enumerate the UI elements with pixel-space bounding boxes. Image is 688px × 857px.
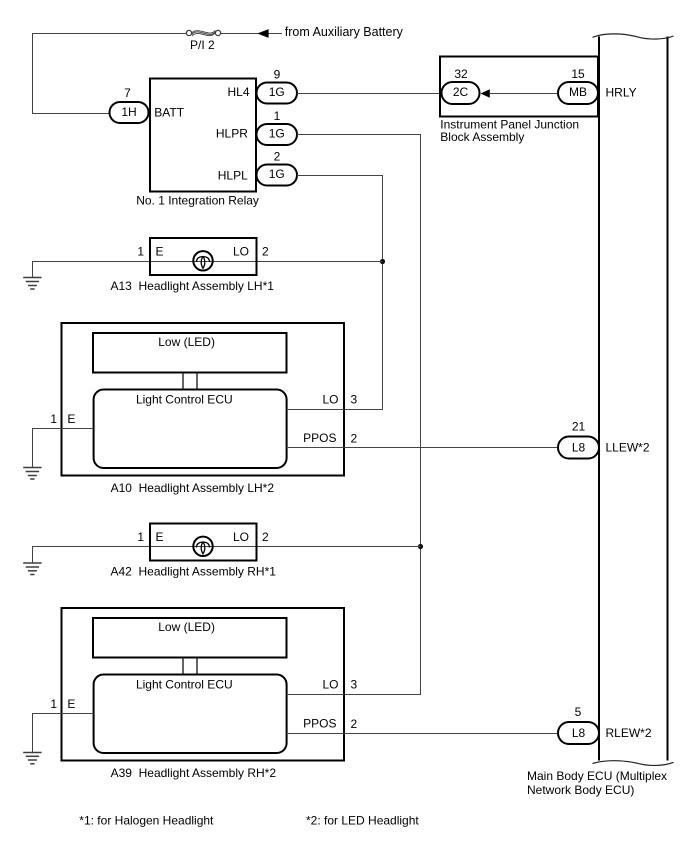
wire: A13 pin2 to HLPL wire: [257, 261, 383, 263]
junction: HLPL wire / A13 pin 2: [380, 259, 385, 264]
wire: A39 PPOS to L8 (RLEW): [344, 733, 558, 735]
noise filter P/I 2 (twisted pair symbol): [186, 30, 220, 36]
svg-text:Light Control ECU: Light Control ECU: [136, 393, 233, 407]
svg-text:2C: 2C: [453, 85, 469, 99]
headlight assembly A39 outer box: [62, 608, 345, 761]
ECU bus: bottom break wave: [593, 761, 674, 766]
wire: A39 LO pin: [287, 694, 344, 696]
svg-text:1G: 1G: [269, 167, 285, 181]
svg-text:1: 1: [50, 697, 57, 711]
wire: A42 internal row: [150, 546, 257, 548]
connector L8 (pin 5): [558, 705, 599, 744]
svg-text:2: 2: [351, 432, 358, 446]
wire: A10 E pin to ground: [33, 429, 94, 468]
svg-text:HLPL: HLPL: [218, 168, 248, 182]
svg-text:HL4: HL4: [227, 85, 249, 99]
wire: A39 E pin to ground: [33, 714, 94, 753]
connector L8 (pin 21): [558, 420, 599, 459]
svg-text:A10 Headlight Assembly LH*2: A10 Headlight Assembly LH*2: [111, 481, 275, 495]
svg-text:Light Control ECU: Light Control ECU: [136, 678, 233, 692]
ground: A13: [23, 278, 41, 290]
svg-text:HLPR: HLPR: [216, 127, 248, 141]
wire: A39 PPOS pin: [287, 733, 344, 735]
svg-text:1G: 1G: [269, 85, 285, 99]
wires: LED to ECU links (A39): [183, 658, 197, 675]
connector 1H (pin 7): [110, 86, 149, 123]
svg-text:Low (LED): Low (LED): [158, 620, 215, 634]
svg-text:*1: for Halogen Headlight: *1: for Halogen Headlight: [79, 814, 214, 828]
ground: A39: [23, 753, 41, 764]
ECU: Light Control ECU (A10): [94, 390, 287, 469]
svg-text:1: 1: [137, 244, 144, 258]
wire: MB to 2C: [490, 93, 558, 95]
svg-text:5: 5: [575, 705, 582, 719]
svg-text:E: E: [67, 412, 75, 426]
ECU bus: Main Body ECU left rail: [598, 37, 600, 761]
ECU bus: top break wave: [593, 34, 674, 39]
LED module: Low (LED): [93, 333, 287, 373]
svg-text:from Auxiliary Battery: from Auxiliary Battery: [285, 25, 404, 39]
svg-text:RLEW*2: RLEW*2: [606, 726, 652, 740]
svg-text:2: 2: [274, 150, 281, 164]
svg-text:15: 15: [571, 67, 585, 81]
svg-text:LO: LO: [233, 244, 249, 258]
ground: A42: [23, 563, 41, 575]
headlight assembly A10 outer box: [62, 323, 345, 476]
svg-text:21: 21: [572, 420, 586, 434]
svg-text:A13 Headlight Assembly LH*1: A13 Headlight Assembly LH*1: [111, 279, 275, 293]
svg-text:P/I 2: P/I 2: [190, 38, 215, 52]
ECU: Light Control ECU (A39): [94, 675, 287, 754]
bulb: A42 low beam: [193, 537, 212, 556]
wire: A10 PPOS pin: [287, 447, 344, 449]
svg-text:LO: LO: [322, 677, 338, 691]
svg-text:3: 3: [351, 393, 358, 407]
wire: A13 pin1 to ground: [33, 262, 151, 278]
svg-text:1: 1: [274, 109, 281, 123]
svg-text:PPOS: PPOS: [303, 716, 336, 730]
svg-text:E: E: [156, 244, 164, 258]
wire: A10 PPOS to L8 (LLEW): [344, 447, 558, 449]
wires: LED to ECU links: [183, 373, 197, 390]
svg-text:No. 1 Integration Relay: No. 1 Integration Relay: [136, 193, 259, 207]
svg-text:PPOS: PPOS: [303, 431, 336, 445]
LED module: Low (LED) (A39): [93, 618, 287, 658]
svg-text:2: 2: [262, 244, 269, 258]
svg-text:LLEW*2: LLEW*2: [606, 440, 650, 454]
junction block: Instrument Panel Junction Block Assembly: [440, 57, 598, 117]
ground: A10: [23, 468, 41, 480]
connector 1G pin 9 (HL4): [257, 68, 298, 104]
svg-text:E: E: [156, 530, 164, 544]
connector 2C (pin 32): [442, 67, 480, 104]
svg-text:BATT: BATT: [154, 105, 184, 119]
relay U1: No. 1 Integration Relay box: [150, 79, 256, 192]
wire: HLPL to A13 and A10 LO (vertical x=382): [297, 176, 383, 410]
svg-text:Network Body ECU): Network Body ECU): [527, 783, 634, 797]
connector 1G pin 1 (HLPR): [257, 109, 298, 145]
svg-text:HRLY: HRLY: [606, 86, 637, 100]
arrow into 2C (points left): [481, 89, 490, 97]
svg-text:9: 9: [274, 68, 281, 82]
svg-text:LO: LO: [322, 392, 338, 406]
svg-text:LO: LO: [233, 530, 249, 544]
headlight A42 box: [150, 524, 257, 561]
svg-text:1: 1: [137, 530, 144, 544]
wire: A13 internal row: [150, 261, 257, 263]
svg-text:A42 Headlight Assembly RH*1: A42 Headlight Assembly RH*1: [111, 565, 277, 579]
junction: HLPR wire / A42 pin 2: [418, 544, 423, 549]
svg-text:2: 2: [262, 530, 269, 544]
svg-text:*2: for LED Headlight: *2: for LED Headlight: [306, 814, 419, 828]
svg-text:E: E: [67, 697, 75, 711]
svg-text:32: 32: [454, 67, 468, 81]
wire: battery feed from 1H up and across top: [33, 34, 187, 114]
svg-text:Low (LED): Low (LED): [158, 335, 215, 349]
svg-text:A39 Headlight Assembly RH*2: A39 Headlight Assembly RH*2: [111, 766, 277, 780]
ECU bus: Main Body ECU right rail: [667, 37, 669, 761]
svg-text:1: 1: [50, 412, 57, 426]
connector 1G pin 2 (HLPL): [257, 150, 298, 186]
svg-text:7: 7: [124, 86, 131, 100]
svg-text:3: 3: [351, 678, 358, 692]
svg-text:1G: 1G: [269, 127, 285, 141]
connector MB (pin 15): [558, 67, 598, 104]
wire: A10 LO pin: [287, 409, 344, 411]
wire: A42 pin2 to HLPR wire: [257, 546, 421, 548]
wire: HLPR to A42 and A39 LO (vertical x=420): [297, 135, 421, 695]
wire: A42 pin1 to ground: [33, 547, 151, 563]
wire: from auxiliary battery into filter: [221, 33, 282, 35]
svg-text:Main Body ECU (Multiplex: Main Body ECU (Multiplex: [527, 769, 667, 783]
wire: HL4 to instrument panel junction block: [297, 93, 442, 95]
svg-text:L8: L8: [572, 440, 586, 454]
headlight A13 box: [150, 238, 257, 275]
svg-text:2: 2: [351, 717, 358, 731]
arrow: from auxiliary battery (points left): [257, 29, 268, 38]
svg-text:L8: L8: [572, 726, 586, 740]
svg-text:Block Assembly: Block Assembly: [440, 130, 524, 144]
bulb: A13 low beam: [193, 251, 212, 270]
svg-text:MB: MB: [569, 85, 587, 99]
svg-text:1H: 1H: [121, 105, 136, 119]
